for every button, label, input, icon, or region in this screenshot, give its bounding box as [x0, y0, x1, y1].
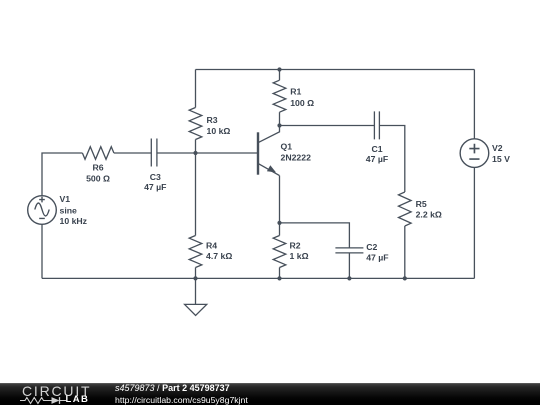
resistor R3 [189, 108, 202, 140]
svg-text:R6: R6 [92, 163, 103, 173]
wire C1 to R5 [379, 126, 404, 193]
footer bar [0, 383, 540, 405]
wire R3 top lead [195, 70, 197, 108]
wire R1 bottom lead [279, 112, 281, 125]
node top rail junction [277, 67, 281, 71]
resistor R2 [273, 236, 286, 268]
wire top rail [196, 69, 475, 71]
label V1 [60, 194, 88, 226]
label R6 [86, 163, 110, 184]
wire collector to C1 [280, 125, 375, 127]
resistor R1 [273, 80, 286, 112]
wire R4 top lead [195, 153, 197, 236]
wire R5 bottom lead [404, 226, 406, 278]
capacitor C3 [151, 139, 157, 167]
node C2 bottom junction [347, 276, 351, 280]
wire V2 bottom lead [473, 167, 475, 278]
svg-text:R3: R3 [207, 115, 218, 125]
capacitor C1 [374, 111, 379, 139]
wire R2 bottom lead [279, 268, 281, 279]
wire R1 top lead [279, 70, 281, 81]
wire V1 to R6 [42, 153, 82, 196]
svg-text:100 Ω: 100 Ω [290, 98, 314, 108]
wire C3 to Q1 base [157, 152, 258, 154]
svg-text:4.7 kΩ: 4.7 kΩ [206, 251, 232, 261]
svg-text:R5: R5 [416, 199, 427, 209]
svg-text:1 kΩ: 1 kΩ [290, 251, 309, 261]
label V2 [492, 143, 510, 164]
wire C2 bottom lead [348, 253, 350, 279]
ground [185, 304, 207, 315]
wire emitter lead [279, 176, 281, 223]
node base junction [193, 151, 197, 155]
wire R6 to C3 [114, 152, 151, 154]
resistor R4 [189, 236, 202, 268]
svg-text:C1: C1 [371, 144, 382, 154]
resistor R5 [399, 192, 412, 226]
voltage source V1 [28, 196, 57, 225]
footer text [115, 383, 248, 405]
label Q1 [281, 142, 312, 163]
svg-text:V1: V1 [60, 194, 71, 204]
svg-text:R2: R2 [290, 240, 301, 250]
wire V1 bottom lead [41, 224, 43, 278]
svg-text:C3: C3 [150, 172, 161, 182]
label R2 [290, 240, 309, 261]
voltage source V2 [460, 139, 489, 168]
svg-text:10 kHz: 10 kHz [60, 216, 88, 226]
svg-text:10 kΩ: 10 kΩ [207, 126, 231, 136]
wire emitter to C2 [280, 223, 350, 248]
label R1 [290, 87, 314, 108]
svg-text:R1: R1 [290, 87, 301, 97]
svg-text:47 µF: 47 µF [144, 182, 166, 192]
svg-text:sine: sine [60, 205, 78, 215]
transistor Q1 [258, 126, 280, 176]
node emitter junction [277, 221, 281, 225]
svg-text:C2: C2 [366, 242, 377, 252]
node R4 ground junction [193, 276, 197, 280]
wire R3 bottom lead [195, 140, 197, 154]
svg-text:2.2 kΩ: 2.2 kΩ [416, 209, 442, 219]
node R5 bottom junction [403, 276, 407, 280]
label R4 [206, 240, 232, 261]
svg-text:Q1: Q1 [281, 142, 293, 152]
node R2 bottom junction [277, 276, 281, 280]
svg-text:R4: R4 [206, 240, 217, 250]
label C1 [366, 144, 388, 164]
CircuitLab logo [22, 384, 92, 404]
wire bottom rail [42, 277, 474, 279]
label C2 [366, 242, 388, 263]
label R3 [207, 115, 231, 136]
label R5 [416, 199, 442, 220]
resistor R2 top lead [279, 223, 281, 236]
svg-text:2N2222: 2N2222 [281, 152, 312, 162]
wire R4 bottom lead [195, 268, 197, 279]
wire V2 top lead [473, 70, 475, 139]
svg-text:47 µF: 47 µF [366, 253, 388, 263]
label C3 [144, 172, 166, 192]
svg-text:47 µF: 47 µF [366, 154, 388, 164]
svg-text:V2: V2 [492, 143, 503, 153]
svg-text:15 V: 15 V [492, 154, 510, 164]
capacitor C2 [335, 248, 363, 253]
svg-text:500 Ω: 500 Ω [86, 174, 110, 184]
wire ground lead [195, 278, 197, 304]
resistor R6 [82, 147, 114, 160]
node collector junction [277, 123, 281, 127]
